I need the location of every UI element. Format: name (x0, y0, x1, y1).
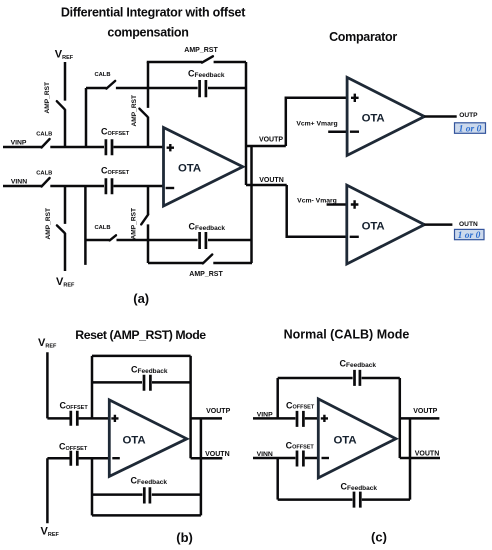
op-amp U4 OTA (B) (109, 400, 187, 477)
wire node P to top CALB branch (85, 88, 88, 147)
svg-text:OUTP: OUTP (459, 112, 478, 119)
node Vcm- Vmarg (U3) (297, 198, 347, 205)
svg-text:COFFSET: COFFSET (59, 442, 88, 452)
svg-text:CALB: CALB (36, 132, 52, 138)
switch AMP_RST (top loop) (184, 47, 218, 63)
wire bottom reset loop (148, 262, 252, 265)
capacitor C_Feedback (bottom) (189, 222, 226, 250)
svg-text:CFeedback: CFeedback (188, 69, 225, 80)
wire VOUTN to comparator U3 (287, 185, 347, 237)
wire V_REF bottom vertical (64, 186, 67, 271)
capacitor C_Feedback (C top) (340, 358, 377, 386)
svg-text:COFFSET: COFFSET (60, 401, 89, 411)
capacitor C_Feedback (B top) (131, 365, 168, 391)
pin + (U1 non-inverting) (167, 144, 174, 151)
capacitor C_OFFSET (C, - path) (286, 440, 315, 466)
svg-text:VOUTN: VOUTN (259, 177, 284, 184)
svg-text:VOUTP: VOUTP (413, 408, 437, 415)
svg-text:CALB: CALB (36, 171, 52, 177)
svg-text:AMP_RST: AMP_RST (131, 208, 138, 240)
wire - input line (B) (47, 457, 109, 460)
wire bottom rail with C_Feedback (C) (278, 498, 410, 501)
wire left vertical top (C) (276, 378, 279, 418)
pin - (U1 inverting) (166, 187, 175, 189)
op-amp U3 OTA comparator N (347, 185, 425, 264)
pin + (U2) (351, 94, 359, 102)
svg-text:OUTN: OUTN (459, 221, 478, 228)
wire AMP_RST vertical to + input (147, 62, 150, 147)
svg-text:VREF: VREF (41, 526, 60, 539)
wire VOUTP to comparator U2 (286, 98, 347, 146)
wire output vertical 2 (250, 146, 253, 263)
svg-text:1 or 0: 1 or 0 (459, 125, 482, 135)
wire left vertical bottom (C) (276, 458, 279, 500)
svg-text:CFeedback: CFeedback (341, 481, 378, 492)
capacitor C_OFFSET (C, + path) (286, 400, 315, 427)
capacitor C_OFFSET (P input path) (101, 127, 130, 156)
wire left vertical bottom (B) (91, 458, 94, 515)
op-amp U2 OTA comparator P (347, 77, 424, 155)
svg-text:Vcm- Vmarg: Vcm- Vmarg (297, 198, 337, 205)
wire output vertical 1 (C) (399, 378, 402, 458)
switch AMP_RST (V_REF bottom) (45, 208, 65, 240)
svg-text:Vcm+ Vmarg: Vcm+ Vmarg (296, 120, 337, 127)
capacitor C_Feedback (C bottom) (341, 481, 378, 507)
title: Differential Integrator with offset compensation (61, 6, 246, 40)
svg-text:CFeedback: CFeedback (131, 476, 168, 487)
svg-text:AMP_RST: AMP_RST (184, 47, 218, 54)
wire V_REF top vertical (64, 62, 67, 147)
svg-text:COFFSET: COFFSET (286, 400, 315, 410)
wire bottom cap line (B) (92, 493, 201, 496)
wire bottom CALB/C_Feedback line (85, 239, 252, 242)
svg-text:AMP_RST: AMP_RST (45, 208, 52, 240)
wire left vertical top (B) (91, 356, 94, 419)
wire C_OFFSET to OTA + input (114, 146, 164, 149)
wire C_OFFSET to OTA - input (114, 185, 164, 188)
switch CALB (VINN input) (36, 171, 52, 187)
wire V_REF bottom vertical (B) (46, 458, 49, 523)
svg-text:CALB: CALB (94, 72, 110, 78)
wire output vertical 2 (B) (200, 418, 203, 515)
capacitor C_OFFSET (B, + path) (60, 401, 89, 426)
pin + (U4) (111, 415, 118, 422)
node VOUTP (B) (191, 408, 231, 418)
svg-text:OTA: OTA (178, 163, 201, 175)
svg-text:VREF: VREF (38, 337, 57, 350)
svg-text:OTA: OTA (362, 221, 385, 233)
svg-text:VOUTP: VOUTP (206, 408, 230, 415)
capacitor C_Feedback (B bottom) (131, 476, 168, 504)
svg-text:AMP_RST: AMP_RST (131, 95, 138, 127)
switch AMP_RST (bottom loop) (189, 255, 223, 279)
wire bottom rail (B) (92, 514, 201, 517)
node Vcm+ Vmarg (U2) (296, 120, 347, 131)
pin - (U2) (350, 130, 359, 132)
node VOUTN (246, 177, 287, 185)
svg-text:VREF: VREF (55, 49, 74, 62)
pin - (U4) (112, 457, 120, 459)
capacitor C_OFFSET (N input path) (101, 166, 130, 195)
node VOUTP (C) (400, 408, 440, 418)
wire output vertical 1 (245, 62, 248, 185)
svg-text:CALB: CALB (94, 225, 110, 231)
pin - (U3) (350, 236, 359, 238)
op-amp U5 OTA (C) (318, 399, 396, 478)
svg-text:CFeedback: CFeedback (189, 222, 226, 233)
svg-text:compensation: compensation (107, 26, 188, 40)
svg-text:VOUTN: VOUTN (415, 450, 440, 457)
svg-text:OTA: OTA (362, 113, 385, 125)
node VOUTP (246, 136, 286, 146)
svg-text:COFFSET: COFFSET (101, 166, 130, 176)
op-amp U1 OTA integrator (164, 128, 243, 207)
wire VINP line (C) (253, 417, 318, 420)
svg-text:(b): (b) (176, 530, 193, 545)
svg-text:COFFSET: COFFSET (286, 440, 315, 450)
wire + input line (B) (47, 417, 109, 420)
switch CALB (top feedback) (94, 72, 115, 89)
svg-text:Differential Integrator with o: Differential Integrator with offset (61, 6, 246, 20)
wire V_REF to + line (B) (46, 352, 49, 418)
capacitor C_OFFSET (B, - path) (59, 442, 88, 466)
node VOUTN (B) (191, 451, 230, 458)
wire top reset loop (147, 61, 246, 64)
svg-text:(c): (c) (371, 530, 387, 545)
switch AMP_RST (V_REF top) (44, 82, 64, 114)
svg-text:OTA: OTA (334, 434, 357, 446)
svg-text:CFeedback: CFeedback (340, 358, 377, 369)
capacitor C_Feedback (top) (188, 69, 225, 98)
node VOUTN (C) (400, 450, 440, 458)
svg-text:OTA: OTA (123, 434, 146, 446)
svg-text:VINP: VINP (11, 139, 27, 146)
svg-text:CFeedback: CFeedback (131, 365, 168, 376)
wire output vertical 1 (B) (189, 356, 192, 458)
svg-text:AMP_RST: AMP_RST (189, 271, 223, 278)
svg-text:Reset (AMP_RST) Mode: Reset (AMP_RST) Mode (75, 328, 206, 342)
output flag 1 or 0 (N) (455, 229, 485, 241)
wire top rail with C_Feedback (C) (278, 377, 400, 380)
svg-text:VINN: VINN (11, 178, 27, 185)
svg-text:VOUTN: VOUTN (205, 451, 230, 458)
svg-text:COFFSET: COFFSET (101, 127, 130, 137)
wire OUTN (424, 223, 452, 226)
pin + (U3) (351, 200, 359, 208)
svg-text:1 or 0: 1 or 0 (458, 231, 481, 241)
svg-text:Comparator: Comparator (329, 30, 397, 44)
switch AMP_RST (vertical, + input) (131, 95, 148, 127)
output flag 1 or 0 (P) (455, 123, 486, 135)
wire AMP_RST vertical to - input (147, 186, 150, 263)
wire top cap line (B) (92, 381, 191, 384)
wire OUTP (424, 115, 456, 118)
wire top CALB/C_Feedback line (86, 87, 246, 90)
wire top rail (B) (92, 355, 191, 358)
pin - (U5) (322, 457, 330, 459)
svg-text:(a): (a) (133, 291, 149, 306)
switch CALB (bottom feedback) (94, 225, 116, 240)
pin + (U5) (321, 415, 328, 422)
wire VINN line (C) (253, 457, 318, 460)
svg-text:Normal (CALB) Mode: Normal (CALB) Mode (284, 327, 410, 341)
wire output vertical 2 (C) (409, 418, 412, 499)
svg-text:VREF: VREF (56, 276, 75, 289)
switch AMP_RST (vertical, - input) (131, 208, 149, 240)
svg-text:AMP_RST: AMP_RST (44, 82, 51, 114)
svg-text:VOUTP: VOUTP (259, 136, 283, 143)
wire node N to bottom CALB branch (84, 186, 87, 265)
switch CALB (VINP input) (36, 132, 52, 148)
wire VINP input (3, 146, 104, 149)
wire VINN input (3, 185, 104, 188)
